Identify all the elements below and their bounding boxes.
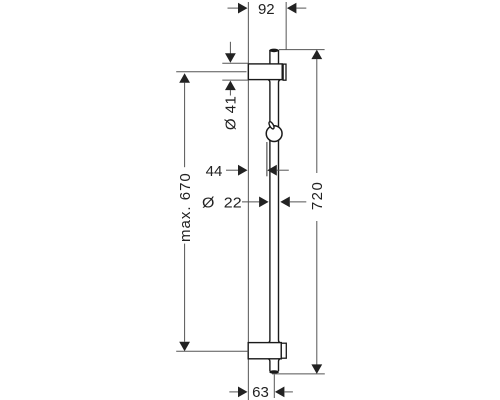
slider sleeve edge bbox=[266, 142, 268, 176]
bottom wall bracket body bbox=[248, 343, 281, 359]
shower bar tube bottom segment bbox=[268, 359, 280, 374]
svg-text:44: 44 bbox=[206, 163, 223, 180]
dimension 63 bbox=[229, 384, 293, 400]
top wall bracket end plate bbox=[283, 64, 286, 80]
dimension Ø41 bbox=[223, 42, 240, 130]
svg-text:max. 670: max. 670 bbox=[177, 172, 194, 242]
dimension Ø41 extension lines bbox=[222, 62, 248, 64]
wall reference line bbox=[247, 2, 249, 400]
dimension 63 extension line right bbox=[273, 375, 275, 399]
dimension max. 670 bbox=[177, 73, 194, 351]
bottom wall bracket end plate bbox=[281, 343, 286, 358]
dimension 720 reference lines bbox=[279, 49, 325, 51]
svg-text:63: 63 bbox=[252, 384, 269, 400]
dimension 92 extension line right bbox=[285, 2, 287, 50]
svg-text:720: 720 bbox=[309, 181, 326, 211]
shower bar tube top segment bbox=[269, 49, 279, 65]
slider lever bbox=[268, 121, 275, 130]
svg-text:92: 92 bbox=[258, 1, 275, 18]
dimension Ø22 bbox=[202, 194, 306, 211]
shower bar tube middle segment bbox=[268, 80, 280, 343]
dimension 720 bbox=[309, 50, 326, 374]
svg-text:Ø 41: Ø 41 bbox=[223, 96, 240, 131]
slider knob bbox=[266, 126, 282, 142]
dimension max. 670 reference lines bbox=[176, 71, 246, 73]
dimension 44 bbox=[206, 163, 289, 180]
top wall bracket body bbox=[248, 64, 282, 80]
dimension 92 bbox=[228, 1, 307, 18]
